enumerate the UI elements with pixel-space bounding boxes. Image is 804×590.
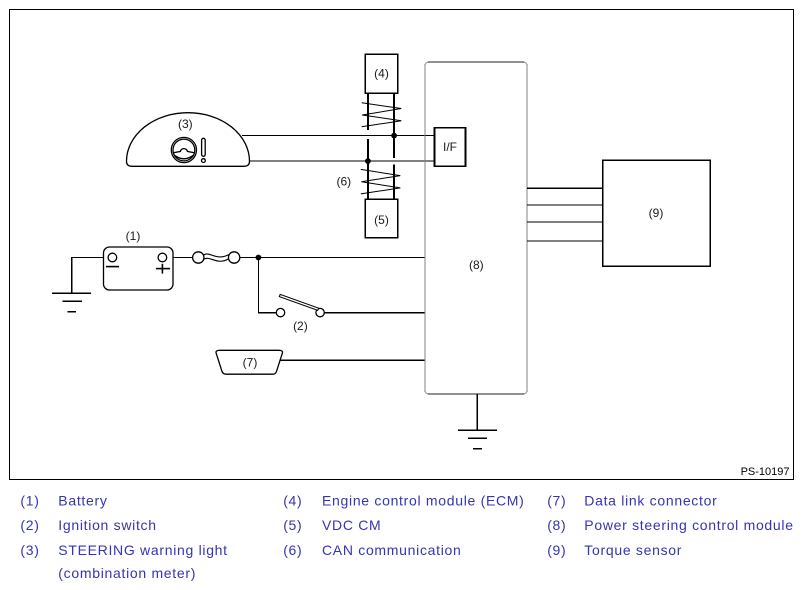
- VDC CM box U5: [365, 199, 398, 238]
- steering wheel icon: [171, 137, 196, 162]
- wire sensor 3: [527, 221, 602, 223]
- ignition switch S1: [276, 294, 324, 316]
- svg-text:Engine control module (ECM): Engine control module (ECM): [322, 493, 525, 509]
- CAN twist upper: [362, 103, 402, 127]
- wire meter lower to I/F: [250, 160, 435, 162]
- svg-text:I/F: I/F: [443, 140, 457, 154]
- CAN bus left wire: [367, 93, 369, 199]
- svg-text:Data link connector: Data link connector: [584, 493, 717, 509]
- ground G1: [52, 293, 91, 311]
- svg-text:PS-10197: PS-10197: [741, 466, 790, 478]
- CAN twist lower: [361, 169, 401, 194]
- svg-text:STEERING warning light: STEERING warning light: [58, 542, 227, 558]
- wire switch to module: [324, 312, 425, 314]
- border frame: [10, 10, 794, 480]
- svg-text:(1): (1): [20, 493, 39, 509]
- wire junction down to switch: [258, 257, 276, 312]
- svg-text:Ignition switch: Ignition switch: [58, 517, 156, 533]
- junction node CAN high: [391, 133, 397, 139]
- junction node: [256, 255, 262, 261]
- svg-text:(2): (2): [20, 517, 39, 533]
- svg-text:(9): (9): [547, 542, 566, 558]
- wire meter upper to I/F: [242, 135, 435, 137]
- svg-text:(9): (9): [649, 206, 664, 220]
- ECM box U4: [365, 54, 398, 93]
- ground G2: [458, 430, 497, 449]
- torque sensor box U9: [603, 160, 711, 266]
- svg-text:CAN communication: CAN communication: [322, 542, 462, 558]
- wire sensor 2: [527, 204, 602, 206]
- svg-text:VDC CM: VDC CM: [322, 517, 381, 533]
- wire sensor 1: [527, 187, 602, 189]
- svg-text:(5): (5): [283, 517, 302, 533]
- CAN bus right wire: [393, 93, 395, 199]
- wire battery positive to fuse: [173, 256, 193, 258]
- svg-text:(8): (8): [547, 517, 566, 533]
- warning exclamation icon: [202, 138, 206, 162]
- svg-text:(7): (7): [243, 355, 258, 369]
- svg-text:(8): (8): [469, 258, 484, 272]
- svg-text:(5): (5): [374, 213, 389, 227]
- power steering control module box U8: [425, 62, 527, 394]
- svg-text:(6): (6): [336, 175, 351, 189]
- junction node CAN low: [365, 158, 371, 164]
- wire battery negative to ground: [72, 257, 104, 293]
- data link connector X1: [216, 350, 282, 374]
- wire fuse to module: [240, 256, 425, 258]
- svg-text:(2): (2): [293, 319, 308, 333]
- svg-text:Power steering control module: Power steering control module: [584, 517, 793, 533]
- svg-text:Battery: Battery: [58, 493, 107, 509]
- wire connector to module: [280, 359, 425, 361]
- svg-text:(6): (6): [283, 542, 302, 558]
- combination meter dome M1: [127, 113, 250, 167]
- svg-text:(combination meter): (combination meter): [58, 565, 196, 581]
- wire sensor 4: [527, 240, 602, 242]
- svg-text:(1): (1): [126, 229, 141, 243]
- I/F box U2: [435, 128, 466, 167]
- svg-text:(3): (3): [20, 542, 39, 558]
- wire module to ground: [476, 394, 478, 430]
- fusible link F1: [193, 252, 240, 263]
- svg-text:(4): (4): [283, 493, 302, 509]
- svg-text:(3): (3): [178, 117, 193, 131]
- svg-text:Torque sensor: Torque sensor: [584, 542, 682, 558]
- svg-text:(7): (7): [547, 493, 566, 509]
- battery B1: [104, 247, 174, 290]
- svg-text:(4): (4): [374, 67, 389, 81]
